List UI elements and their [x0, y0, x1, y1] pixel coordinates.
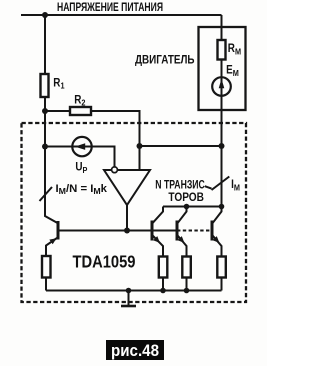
svg-text:ТОРОВ: ТОРОВ — [168, 191, 204, 204]
svg-text:ДВИГАТЕЛЬ: ДВИГАТЕЛЬ — [135, 52, 195, 66]
svg-text:TDA1059: TDA1059 — [73, 252, 136, 272]
svg-text:рис.48: рис.48 — [111, 341, 159, 360]
svg-text:НАПРЯЖЕНИЕ ПИТАНИЯ: НАПРЯЖЕНИЕ ПИТАНИЯ — [57, 1, 163, 14]
svg-text:N ТРАНЗИС: N ТРАНЗИС — [155, 179, 205, 192]
